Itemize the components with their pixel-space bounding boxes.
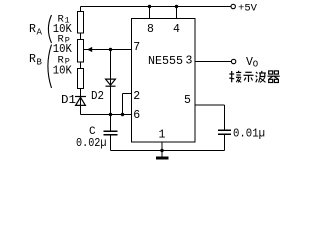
resistor RP lower bbox=[78, 69, 84, 89]
wire C top lead bbox=[110, 115, 112, 132]
node pin8 junction bbox=[148, 5, 151, 8]
label R1 bbox=[58, 14, 70, 26]
wire D2 vertical bbox=[110, 50, 112, 115]
label RA bbox=[29, 23, 43, 38]
svg-text:A: A bbox=[37, 28, 43, 38]
node pin2 junction bbox=[121, 113, 124, 116]
wiper arrowhead bbox=[87, 47, 92, 52]
svg-text:0.02µ: 0.02µ bbox=[76, 137, 107, 150]
wire cap2 bottom lead bbox=[224, 134, 226, 150]
label RB bbox=[29, 53, 43, 68]
resistor R1 bbox=[78, 12, 84, 34]
svg-text:2: 2 bbox=[133, 90, 140, 103]
svg-text:8: 8 bbox=[147, 23, 154, 36]
wire RP2 to D1 bbox=[80, 89, 82, 115]
svg-text:1: 1 bbox=[159, 128, 166, 141]
terminal Vo circle bbox=[231, 59, 235, 63]
wire pin1 bbox=[161, 142, 163, 151]
diode D1 bbox=[75, 97, 86, 106]
svg-text:5: 5 bbox=[184, 94, 191, 107]
svg-text:D2: D2 bbox=[91, 89, 104, 103]
wire pin2 horizontal bbox=[123, 93, 132, 95]
label bo oscilloscope char3 bbox=[256, 71, 266, 83]
svg-text:4: 4 bbox=[173, 23, 180, 36]
svg-text:NE555: NE555 bbox=[148, 54, 183, 68]
diode D2 bbox=[106, 79, 116, 86]
svg-text:7: 7 bbox=[133, 41, 140, 54]
terminal +5V circle bbox=[231, 4, 235, 8]
capacitor C1 0.02u plates bbox=[104, 131, 118, 135]
capacitor C2 0.01u plates bbox=[218, 130, 231, 134]
ground bbox=[156, 151, 169, 159]
label Vo bbox=[246, 56, 258, 70]
node D2 top junction bbox=[109, 48, 112, 51]
svg-text:B: B bbox=[37, 58, 43, 68]
wire resistor chain top bbox=[80, 7, 82, 12]
label shi oscilloscope char2 bbox=[244, 72, 254, 82]
wire ground rail bbox=[111, 150, 225, 152]
svg-text:0.01µ: 0.01µ bbox=[233, 127, 265, 140]
wire pin3 output bbox=[195, 61, 231, 63]
svg-text:6: 6 bbox=[133, 109, 140, 122]
svg-text:10K: 10K bbox=[53, 63, 73, 77]
node pin4 junction bbox=[175, 5, 178, 8]
brace RA group bbox=[48, 15, 51, 43]
svg-text:R: R bbox=[29, 53, 36, 66]
wire R1 to RP1 bbox=[80, 33, 82, 40]
svg-text:3: 3 bbox=[186, 54, 193, 67]
IC U1 NE555 box bbox=[132, 19, 196, 143]
node D2 bottom junction bbox=[109, 113, 112, 116]
resistor RP upper bbox=[78, 40, 84, 63]
wire pin2 vertical bbox=[122, 94, 124, 115]
label qi oscilloscope char4 bbox=[268, 71, 280, 83]
label jie oscilloscope char1 bbox=[229, 71, 241, 83]
wire pin5 cap lead bbox=[224, 105, 226, 130]
wire RP1 to RP2 bbox=[80, 62, 82, 69]
wire pin7 wiper bbox=[84, 49, 132, 51]
svg-text:D1: D1 bbox=[61, 93, 76, 107]
wire pin6 horizontal bbox=[81, 114, 132, 116]
wire pin8 drop bbox=[149, 7, 151, 19]
wire C bottom lead bbox=[110, 135, 112, 151]
svg-text:R: R bbox=[29, 23, 36, 36]
wire pin4 drop bbox=[176, 7, 178, 19]
wire top +5V rail bbox=[81, 6, 231, 8]
brace RB group bbox=[48, 45, 52, 89]
wire pin5 horizontal bbox=[195, 104, 225, 106]
label RP first bbox=[58, 34, 70, 46]
svg-text:O: O bbox=[253, 60, 258, 70]
svg-text:+5V: +5V bbox=[238, 2, 258, 14]
node pin1 junction bbox=[160, 149, 163, 152]
label RP second bbox=[58, 55, 70, 67]
